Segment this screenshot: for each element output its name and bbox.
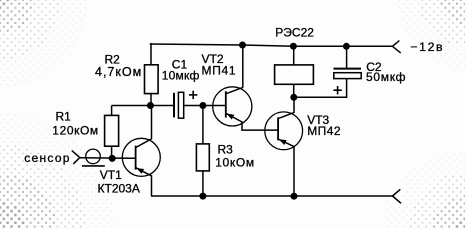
wire: R1 bottom lead (111, 146, 113, 158)
wire: rail corner down to R2 (150, 44, 151, 65)
junction: relay / VT3 collector / C2 (290, 94, 297, 101)
wire: C1 right plate to junction B and VT2 base (184, 105, 226, 107)
transistor VT1 body (122, 138, 160, 176)
svg-text:R3: R3 (218, 142, 234, 156)
junction: C2 / rail (343, 43, 350, 50)
svg-text:10кОм: 10кОм (215, 155, 255, 169)
wire: rail to relay coil top (293, 46, 295, 65)
VT3 emitter diagonal (278, 139, 294, 147)
VT3 base bar (277, 117, 279, 140)
wire: bottom common rail (151, 195, 393, 197)
VT2 collector diagonal (226, 87, 243, 93)
wire: VT2 collector up to rail (242, 45, 244, 88)
VT3 emitter arrow (PNP) (279, 139, 287, 145)
resistor R1 (105, 115, 119, 146)
resistor R2 (145, 65, 159, 94)
svg-text:КТ203А: КТ203А (98, 181, 140, 195)
wire: R3 bottom lead (202, 171, 204, 196)
junction: R2 / VT1 collector / C1 (147, 102, 154, 109)
wire: VT3 emitter down to bottom rail (293, 146, 295, 196)
svg-text:МП41: МП41 (202, 63, 237, 77)
svg-text:VT1: VT1 (100, 168, 122, 182)
junction: R1 / sensor / VT1 base (109, 155, 116, 162)
wire: VT2 emitter to VT3 base (242, 121, 278, 130)
svg-text:РЭС22: РЭС22 (275, 26, 314, 40)
wire: top -12V rail (150, 44, 393, 46)
VT1 collector diagonal (136, 139, 152, 148)
sensor plate: circle (86, 149, 101, 164)
VT1 emitter arrow (PNP) (136, 168, 144, 174)
wire: R1 top / junction A / C1 left plate (112, 105, 174, 107)
wire: R3 top lead (202, 106, 204, 144)
capacitor C1 (electrolytic) left plate (173, 93, 175, 118)
resistor R3 (196, 144, 209, 171)
svg-text:120кОм: 120кОм (52, 124, 98, 138)
relay K1 coil (РЭС22) (275, 65, 314, 84)
VT1 base bar (135, 146, 137, 170)
wire: R1 top lead (111, 106, 113, 116)
wire: VT3 collector up to relay junction (293, 97, 295, 113)
VT3 collector diagonal (278, 113, 294, 119)
VT2 base bar (225, 91, 227, 117)
wire: relay coil bottom to junction C (293, 84, 295, 97)
svg-text:−12в: −12в (410, 40, 444, 54)
connector: -12V terminal chevron (392, 41, 399, 47)
VT1 emitter diagonal (136, 168, 152, 176)
C1 polarity + (189, 94, 197, 96)
VT2 emitter diagonal (226, 113, 242, 122)
junction: C1 / R3 / VT2 base (199, 102, 206, 109)
connector: bottom common terminal chevron (393, 189, 401, 196)
wire: rail down to C2 top plate (346, 46, 348, 68)
svg-text:сенсор: сенсор (24, 151, 71, 165)
junction: VT3 emitter / bottom rail (291, 193, 298, 200)
sensor input terminal chevron (72, 151, 80, 158)
capacitor C1 right plate (178, 92, 183, 118)
capacitor C2 top plate (334, 68, 362, 70)
sensor plate: bottom bar (82, 165, 105, 167)
C2 polarity + (333, 89, 341, 91)
VT2 emitter arrow (PNP) (227, 114, 235, 120)
transistor VT3 body (265, 112, 303, 150)
capacitor C2 bottom plate (electrolytic) (334, 73, 361, 79)
junction: relay / rail (290, 43, 297, 50)
svg-text:МП42: МП42 (307, 124, 341, 138)
junction: VT2 collector / rail (239, 42, 246, 49)
wire: R2 bottom lead (150, 94, 152, 106)
svg-text:50мкф: 50мкф (366, 70, 406, 84)
svg-text:10мкф: 10мкф (162, 69, 200, 83)
wire: VT1 emitter down to bottom rail (151, 175, 153, 196)
transistor VT2 body (213, 87, 252, 126)
svg-text:4,7кОм: 4,7кОм (95, 65, 142, 79)
svg-text:R1: R1 (56, 109, 72, 123)
wire: sensor to VT1 base (80, 157, 136, 160)
junction: R3 / bottom rail (199, 193, 206, 200)
wire: VT1 collector up to junction A (151, 106, 153, 140)
wire: C2 bottom to junction C (294, 79, 347, 98)
